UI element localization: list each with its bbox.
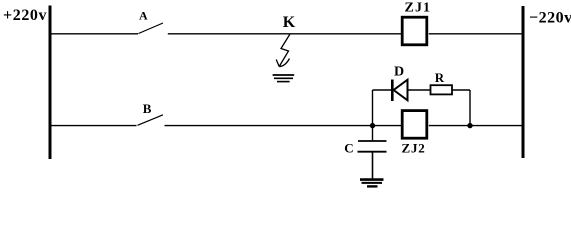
capacitor C bottom plate xyxy=(358,151,387,153)
svg-text:A: A xyxy=(139,9,148,23)
ground below capacitor xyxy=(360,178,384,181)
wire bottom right segment xyxy=(429,125,522,127)
node junction capacitor branch xyxy=(370,123,375,128)
wire top middle segment xyxy=(168,33,401,35)
right bus bar xyxy=(522,6,525,158)
svg-text:C: C xyxy=(344,140,353,155)
capacitor C top plate xyxy=(358,140,387,142)
relay coil ZJ1 xyxy=(402,17,427,45)
node junction diode branch xyxy=(467,123,472,128)
svg-text:−220v: −220v xyxy=(529,9,571,26)
wire diode to resistor xyxy=(408,89,431,91)
svg-text:ZJ2: ZJ2 xyxy=(402,141,426,156)
svg-text:D: D xyxy=(394,65,404,80)
wire capacitor to ground xyxy=(372,152,374,180)
resistor R xyxy=(431,85,453,94)
diode D cathode bar xyxy=(391,80,394,102)
wire top left segment xyxy=(52,33,139,35)
left bus bar xyxy=(49,6,52,160)
wire junction to capacitor xyxy=(372,126,374,141)
relay coil ZJ2 xyxy=(402,111,427,139)
svg-text:+220v: +220v xyxy=(3,7,47,24)
wire branch horizontal to diode xyxy=(373,89,393,91)
switch A blade xyxy=(139,23,164,34)
wire bottom left segment xyxy=(52,125,137,127)
svg-text:B: B xyxy=(143,101,152,116)
wire branch riser left xyxy=(372,90,374,126)
wire bottom middle segment xyxy=(165,125,402,127)
wire top right segment xyxy=(429,33,522,35)
switch B blade xyxy=(138,115,164,126)
wire resistor to corner xyxy=(452,89,470,91)
diode D triangle xyxy=(394,80,408,101)
svg-text:R: R xyxy=(435,70,445,85)
spark arrow at K xyxy=(279,34,290,67)
svg-text:K: K xyxy=(283,14,296,31)
wire branch riser right xyxy=(469,90,471,126)
svg-text:ZJ1: ZJ1 xyxy=(405,1,432,16)
ground at K xyxy=(273,74,295,76)
